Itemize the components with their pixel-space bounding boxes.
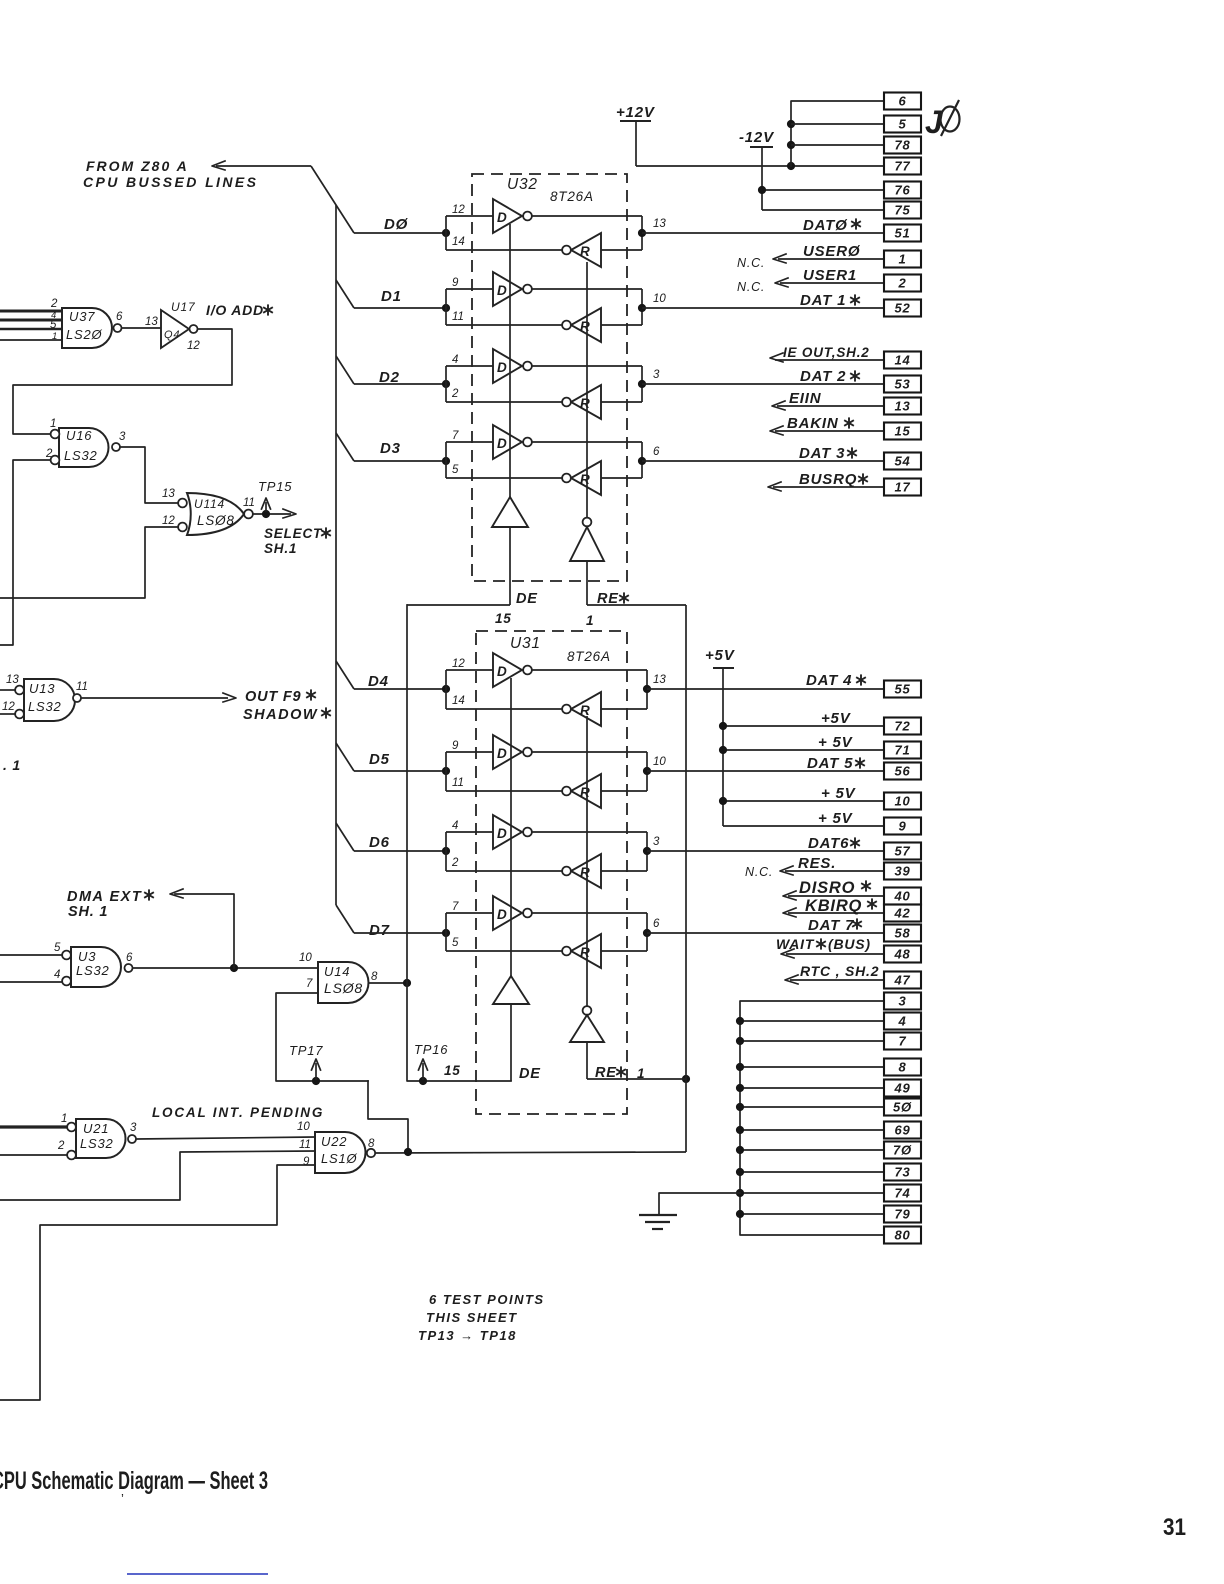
svg-text:9: 9 (303, 1156, 310, 1168)
connector J0 pin 71 box (884, 742, 921, 759)
power +5V (U31 area) (705, 647, 736, 826)
wire bus tap D1 (336, 280, 354, 308)
IC U31 8T26A dashed outline (476, 631, 627, 1114)
ground symbol (639, 1193, 740, 1229)
svg-text:12: 12 (452, 204, 465, 216)
svg-text:2: 2 (451, 388, 459, 400)
svg-text:9: 9 (452, 277, 459, 289)
svg-text:14: 14 (894, 353, 910, 368)
svg-text:1: 1 (637, 1066, 645, 1081)
connector J0 pin 55 box (884, 681, 921, 698)
label BAKIN* (787, 415, 854, 432)
svg-text:N.C.: N.C. (745, 865, 773, 879)
label +5V (10) (821, 785, 857, 802)
label DAT2* (800, 368, 860, 385)
note 6 test points this sheet (418, 1292, 545, 1343)
connector J0 pin 74 box (884, 1185, 921, 1202)
svg-text:+12V: +12V (616, 104, 656, 121)
svg-text:11: 11 (299, 1139, 311, 1151)
svg-text:SHADOW: SHADOW (243, 707, 318, 723)
label D6 (369, 834, 390, 851)
svg-text:5: 5 (898, 117, 906, 132)
wire BUSRQ* arrow (768, 482, 884, 491)
svg-text:U16: U16 (66, 428, 92, 443)
svg-text:D4: D4 (368, 673, 389, 690)
wire bus tap D6 (336, 823, 354, 851)
label D0 (384, 216, 409, 233)
svg-text:47: 47 (893, 973, 910, 988)
svg-text:31: 31 (1163, 1514, 1186, 1541)
svg-text:11: 11 (243, 497, 255, 509)
label DAT0* (803, 217, 861, 234)
svg-text:12: 12 (452, 658, 465, 670)
svg-text:RTC , SH.2: RTC , SH.2 (800, 963, 879, 979)
svg-text:U114: U114 (194, 497, 225, 511)
label D7 (369, 922, 390, 939)
connector J0 pin 8 box (884, 1059, 921, 1076)
svg-text:49: 49 (893, 1081, 910, 1096)
label DMA EXT* SH.1 (67, 889, 154, 920)
svg-text:13: 13 (653, 674, 666, 686)
label DISRO* (799, 879, 871, 897)
svg-text:5: 5 (452, 464, 459, 476)
svg-text:LS32: LS32 (64, 448, 98, 463)
svg-text:14: 14 (452, 695, 465, 707)
wire RES. arrow (N.C.) (780, 866, 884, 875)
svg-text:11: 11 (452, 777, 464, 789)
label DAT4* (806, 672, 866, 689)
wire USER1 arrow (N.C.) (775, 278, 884, 287)
svg-text:U13: U13 (29, 681, 55, 696)
svg-text:BUSRQ: BUSRQ (799, 471, 857, 488)
svg-text:4: 4 (54, 969, 60, 981)
connector J0 pin 57 box (884, 843, 921, 860)
svg-text:15: 15 (894, 424, 910, 439)
svg-text:51: 51 (894, 226, 910, 241)
label USER0 / N.C. (737, 243, 861, 270)
svg-text:R: R (580, 472, 590, 487)
wire U31 RE* pin 1 run (587, 1078, 686, 1080)
svg-text:(BUS): (BUS) (828, 936, 871, 952)
svg-text:6 TEST POINTS: 6 TEST POINTS (429, 1292, 545, 1307)
wire bus tap D7 (336, 905, 354, 933)
svg-text:7Ø: 7Ø (893, 1143, 912, 1158)
label D3 (380, 440, 401, 457)
svg-text:D: D (497, 283, 507, 298)
svg-text:R: R (580, 945, 590, 960)
svg-text:D: D (497, 436, 507, 451)
svg-text:+ 5V: + 5V (818, 734, 854, 751)
svg-text:FROM Z80 A: FROM Z80 A (86, 158, 189, 174)
svg-text:56: 56 (894, 764, 910, 779)
svg-text:15: 15 (495, 611, 512, 626)
svg-text:D: D (497, 907, 507, 922)
U32 transceiver bit D2 (driver D / receiver R) (354, 349, 660, 419)
label D4 (368, 673, 389, 690)
svg-text:N.C.: N.C. (737, 280, 765, 294)
connector J0 pin 47 box (884, 972, 921, 989)
connector J0 pin 4 box (884, 1013, 921, 1030)
svg-text:DISRO: DISRO (799, 879, 855, 897)
svg-text:-12V: -12V (739, 129, 775, 146)
connector J0 pin 39 box (884, 863, 921, 880)
connector J0 pin 72 box (884, 718, 921, 735)
svg-text:R: R (580, 703, 590, 718)
svg-text:U31: U31 (510, 635, 541, 652)
wire DAT6* to J0-57 (647, 850, 884, 852)
U32 transceiver bit D0 (driver D / receiver R) (354, 199, 666, 267)
svg-text:LS32: LS32 (28, 699, 62, 714)
svg-text:8T26A: 8T26A (550, 189, 594, 204)
connector J0 pin 48 box (884, 946, 921, 963)
svg-text:4: 4 (452, 354, 458, 366)
svg-text:U21: U21 (83, 1121, 109, 1136)
svg-text:R: R (580, 865, 590, 880)
svg-text:58: 58 (894, 926, 910, 941)
svg-text:U17: U17 (171, 300, 196, 314)
wire U37 pin 6 output to U17 pin 13 (122, 316, 162, 328)
OR gate U13 LS32 (OUT F9*) (2, 674, 88, 721)
svg-text:7: 7 (452, 901, 459, 913)
wire KBIRQ* arrow (783, 908, 884, 917)
wire U14 pin 7 feedback input with TP17 (276, 993, 368, 1085)
connector J0 pin 52 box (884, 300, 921, 317)
connector J0 pin 5&amp;#216; box (884, 1099, 921, 1116)
svg-text:DE: DE (519, 1066, 541, 1082)
svg-text:D6: D6 (369, 834, 390, 851)
connector J0 pin 69 box (884, 1122, 921, 1139)
label WAIT*(BUS) (776, 936, 871, 952)
svg-text:2: 2 (57, 1140, 65, 1152)
svg-text:+5V: +5V (821, 710, 852, 727)
label +5V (9) (818, 810, 854, 827)
svg-text:12: 12 (162, 515, 175, 527)
svg-text:79: 79 (894, 1207, 910, 1222)
svg-text:USER1: USER1 (803, 267, 857, 284)
connector J0 pin 49 box (884, 1080, 921, 1097)
connector J0 pin 78 box (884, 137, 921, 154)
svg-text:7: 7 (306, 978, 313, 990)
connector J0 pin 7 box (884, 1033, 921, 1050)
svg-text:RE: RE (595, 1065, 617, 1081)
power +12V (616, 104, 656, 166)
label DAT1* (800, 292, 860, 309)
svg-text:U14: U14 (324, 964, 350, 979)
svg-text:+5V: +5V (705, 647, 736, 664)
connector J0 pin 54 box (884, 453, 921, 470)
svg-text:77: 77 (894, 159, 910, 174)
svg-text:SH. 1: SH. 1 (68, 904, 108, 920)
svg-text:DØ: DØ (384, 216, 409, 233)
wire U114 output / SELECT* arrow (253, 509, 296, 518)
label D5 (369, 751, 390, 768)
svg-text:12: 12 (2, 701, 15, 713)
wire U21 input pins 1,2 (0, 1127, 67, 1155)
svg-text:+ 5V: + 5V (821, 785, 857, 802)
wire BAKIN* arrow (770, 426, 884, 435)
connector J0 pin 10 box (884, 793, 921, 810)
caption CPU Schematic Diagram - Sheet 3 (0, 1467, 268, 1506)
svg-text:40: 40 (893, 889, 910, 904)
connector J0 pin 79 box (884, 1206, 921, 1223)
connector J0 pin 3 box (884, 993, 921, 1010)
svg-text:10: 10 (894, 794, 910, 809)
svg-text:10: 10 (297, 1121, 310, 1133)
label BUSRQ* (799, 471, 868, 488)
svg-text:RES.: RES. (798, 855, 836, 872)
svg-text:53: 53 (894, 377, 910, 392)
svg-text:8: 8 (368, 1138, 375, 1150)
wire U16 pin 2 input (exits page left) (0, 460, 51, 645)
svg-text:CPU BUSSED LINES: CPU BUSSED LINES (83, 174, 258, 190)
connector J0 pin 2 box (884, 275, 921, 292)
wire bus tap D3 (336, 433, 354, 461)
svg-text:73: 73 (894, 1165, 910, 1180)
power -12V (739, 129, 775, 210)
svg-text:55: 55 (894, 682, 910, 697)
svg-text:Q4: Q4 (164, 329, 180, 341)
connector J0 pin 9 box (884, 818, 921, 835)
svg-text:57: 57 (894, 844, 910, 859)
wire -12V to J0-75 (762, 209, 884, 211)
wire RTC,SH.2 arrow (785, 975, 884, 984)
svg-text:71: 71 (894, 743, 910, 758)
connector J0 pin 56 box (884, 763, 921, 780)
svg-text:RE: RE (597, 591, 619, 607)
svg-text:78: 78 (894, 138, 910, 153)
wire DAT5* to J0-56 (647, 770, 884, 772)
svg-text:LOCAL INT. PENDING: LOCAL INT. PENDING (152, 1105, 324, 1120)
wire U22 pin 9 input (exits page left) (0, 1165, 315, 1400)
label KBIRQ* (805, 897, 877, 915)
svg-text:52: 52 (894, 301, 910, 316)
wire +5V to J0-10 (719, 797, 884, 805)
svg-text:EIIN: EIIN (789, 390, 822, 407)
svg-text:4: 4 (897, 1014, 906, 1029)
svg-text:13: 13 (6, 674, 19, 686)
svg-text:U32: U32 (507, 176, 538, 193)
svg-text:10: 10 (653, 756, 666, 768)
wire DISRO* arrow (783, 891, 884, 900)
wire DMA EXT* branch arrow (170, 889, 234, 968)
svg-text:+ 5V: + 5V (818, 810, 854, 827)
label U32 DE pin 15 (495, 591, 538, 626)
svg-text:OUT F9: OUT F9 (245, 689, 301, 705)
svg-text:LS1Ø: LS1Ø (321, 1151, 358, 1166)
svg-text:6: 6 (653, 918, 660, 930)
connector J0 pin 58 box (884, 925, 921, 942)
wire U114 pin 12 input (exits page left) (0, 527, 177, 598)
U32 transceiver bit D1 (driver D / receiver R) (354, 272, 666, 342)
svg-text:1: 1 (898, 252, 906, 267)
connector J0 pin 5 box (884, 116, 921, 133)
svg-text:10: 10 (653, 293, 666, 305)
page number 31 (1163, 1514, 1186, 1541)
connector J0 label (925, 100, 960, 140)
OR gate U3 LS32 (54, 942, 133, 987)
svg-text:6: 6 (653, 446, 660, 458)
svg-text:80: 80 (894, 1228, 910, 1243)
svg-text:13: 13 (894, 399, 910, 414)
wire U21 pin 3 output to U22 pin 10 (137, 1137, 316, 1139)
wire +12V to J0-77 (636, 162, 884, 170)
svg-text:USERØ: USERØ (803, 243, 861, 260)
svg-text:11: 11 (76, 681, 88, 693)
AND gate U14 LS08 (DE driver) (299, 952, 378, 1003)
svg-text:DAT 3: DAT 3 (799, 445, 845, 462)
wire U13 output arrow to OUT F9* (82, 693, 237, 702)
svg-text:1: 1 (586, 613, 594, 628)
wire U16 pin 3 output to U114 pin 13 (120, 447, 177, 503)
wire +5V to J0-71 (719, 746, 884, 754)
wire U32 DE pin 15 run to left vertical (407, 604, 510, 606)
svg-text:48: 48 (893, 947, 910, 962)
svg-text:8: 8 (371, 971, 378, 983)
svg-text:’: ’ (121, 1491, 124, 1506)
svg-text:TP16: TP16 (414, 1042, 448, 1057)
test point TP17 (289, 1043, 323, 1080)
svg-text:3: 3 (653, 369, 660, 381)
svg-text:LS32: LS32 (76, 963, 110, 978)
wire J0 pins 6,5,78 tie (787, 101, 884, 166)
svg-text:13: 13 (145, 316, 158, 328)
NAND gate U22 LS10 (RE* driver) (297, 1121, 375, 1173)
svg-text:2: 2 (451, 857, 459, 869)
svg-text:15: 15 (444, 1063, 461, 1078)
svg-text:DATØ: DATØ (803, 217, 848, 234)
4-input NAND gate U37 LS20 (50, 298, 123, 348)
wire EIIN arrow (772, 401, 884, 410)
svg-text:IE OUT,SH.2: IE OUT,SH.2 (783, 345, 870, 360)
label DAT5* (807, 755, 865, 772)
connector J0 pin 14 box (884, 352, 921, 369)
svg-text:2: 2 (45, 448, 53, 460)
svg-text:KBIRQ: KBIRQ (805, 897, 862, 915)
wire bus tap D5 (336, 743, 354, 771)
wire DE vertical from U32 to U31 (left) (407, 605, 511, 1085)
svg-text:6: 6 (126, 952, 133, 964)
svg-text:SELECT: SELECT (264, 526, 323, 541)
label U31 DE pin 15 (444, 1063, 541, 1082)
svg-text:3: 3 (130, 1122, 137, 1134)
wire DAT7* to J0-58 (647, 932, 884, 934)
svg-text:5Ø: 5Ø (893, 1100, 912, 1115)
connector J0 pin 6 box (884, 93, 921, 110)
svg-text:3: 3 (898, 994, 906, 1009)
wire U17 pin 12 to U16 pin 1 (13, 329, 232, 434)
wire DAT4* to J0-55 (647, 688, 884, 690)
wire U13 input pins 13,12 (0, 690, 15, 714)
label LOCAL INT. PENDING (152, 1105, 324, 1120)
wire U22 pin 11 input (exits page left) (0, 1151, 315, 1200)
connector J0 pin 76 box (884, 182, 921, 199)
svg-text:13: 13 (653, 218, 666, 230)
U31 transceiver bit D7 (driver D / receiver R) (354, 896, 660, 968)
svg-text:5: 5 (54, 942, 61, 954)
svg-text:WAIT: WAIT (776, 936, 815, 952)
label DAT6* (808, 835, 860, 852)
svg-text:9: 9 (452, 740, 459, 752)
connector J0 pin 80 box (884, 1227, 921, 1244)
connector J0 pin 53 box (884, 376, 921, 393)
svg-text:CPU Schematic Diagram — Sheet: CPU Schematic Diagram — Sheet 3 (0, 1467, 268, 1495)
label RTC,SH.2 (800, 963, 879, 979)
label +5V (72) (821, 710, 852, 727)
svg-text:76: 76 (894, 183, 910, 198)
label .1 (left edge) (3, 757, 21, 773)
svg-text:N.C.: N.C. (737, 256, 765, 270)
label FROM Z80A CPU BUSSED LINES (83, 158, 258, 190)
svg-text:3: 3 (119, 431, 126, 443)
svg-text:U37: U37 (69, 309, 95, 324)
svg-text:R: R (580, 396, 590, 411)
connector J0 pin 13 box (884, 398, 921, 415)
connector J0 pin 75 box (884, 202, 921, 219)
wire TP17 net staircase to U22 output (368, 1081, 408, 1150)
svg-text:14: 14 (452, 236, 465, 248)
label RES. / N.C. (745, 855, 836, 879)
IC U32 8T26A dashed outline (472, 174, 627, 581)
svg-text:I/O ADD: I/O ADD (206, 302, 264, 318)
svg-text:D7: D7 (369, 922, 390, 939)
U32 DE enable buffer (492, 224, 528, 605)
connector J0 pin 1 box (884, 251, 921, 268)
svg-text:DE: DE (516, 591, 538, 607)
connector J0 pin 51 box (884, 225, 921, 242)
svg-text:5: 5 (452, 937, 459, 949)
label OUT F9* / SHADOW* (243, 689, 331, 723)
label DAT7* (808, 917, 862, 934)
label D2 (379, 369, 400, 386)
svg-text:LS32: LS32 (80, 1136, 114, 1151)
gate U114 LS08 (SELECT*) (162, 488, 255, 535)
label DAT3* (799, 445, 857, 462)
wire DAT1* to J0-52 (642, 307, 884, 309)
svg-text:2: 2 (897, 276, 906, 291)
label U32 RE* pin 1 (586, 591, 629, 628)
label I/O ADD* (206, 302, 273, 318)
label D1 (381, 288, 402, 305)
wire +5V to J0-72 (719, 722, 884, 730)
svg-text:U22: U22 (321, 1134, 347, 1149)
svg-text:R: R (580, 244, 590, 259)
svg-text:54: 54 (894, 454, 910, 469)
svg-text:. 1: . 1 (3, 757, 21, 773)
label SELECT* SH.1 (264, 526, 331, 556)
svg-text:D: D (497, 826, 507, 841)
U31 RE* enable buffer (570, 716, 604, 1079)
label U31 RE* pin 1 (595, 1065, 645, 1081)
svg-text:D1: D1 (381, 288, 402, 305)
OR gate U16 LS32 (45, 418, 126, 467)
svg-text:LS2Ø: LS2Ø (66, 327, 103, 342)
svg-text:42: 42 (893, 906, 910, 921)
wire U37 input pins 2,4,5,1 (0, 311, 62, 340)
svg-text:DAT 7: DAT 7 (808, 917, 854, 934)
svg-text:1: 1 (61, 1113, 67, 1125)
wire -12V to J0-76 (758, 186, 884, 194)
U32 transceiver bit D3 (driver D / receiver R) (354, 425, 660, 495)
svg-text:3: 3 (653, 836, 660, 848)
svg-text:DAT 5: DAT 5 (807, 755, 853, 772)
OR gate U21 LS32 (LOCAL INT. PENDING) (57, 1113, 137, 1159)
U31 transceiver bit D6 (driver D / receiver R) (354, 815, 660, 888)
svg-text:D: D (497, 746, 507, 761)
svg-text:2: 2 (50, 298, 58, 310)
wire bus tap D4 (336, 661, 354, 689)
svg-text:D5: D5 (369, 751, 390, 768)
svg-text:DAT 4: DAT 4 (806, 672, 852, 689)
